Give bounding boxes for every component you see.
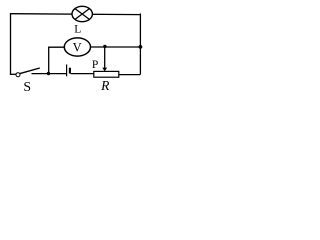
- svg-text:V: V: [73, 40, 82, 54]
- wire battery to rheostat: [71, 73, 95, 75]
- node junction dot (slider tap on voltmeter wire): [103, 45, 106, 48]
- wire left rail: [10, 13, 12, 75]
- node junction dot (voltmeter branch to bottom wire): [47, 72, 50, 75]
- voltmeter V: [64, 38, 90, 56]
- label R: [100, 78, 110, 93]
- svg-text:R: R: [100, 78, 110, 93]
- wire rheostat to bottom right corner: [119, 74, 141, 76]
- svg-text:P: P: [92, 59, 98, 71]
- wire bottom left (corner to switch pivot): [10, 73, 16, 75]
- svg-text:S: S: [23, 79, 31, 94]
- wire voltmeter right lead to right rail: [91, 46, 141, 48]
- wire switch contact to battery: [32, 73, 67, 75]
- label L: [74, 24, 81, 36]
- rheostat R body: [94, 71, 119, 77]
- svg-text:L: L: [74, 24, 81, 36]
- lamp L: [72, 6, 92, 21]
- wire right rail: [139, 13, 141, 74]
- wire voltmeter branch vertical: [48, 47, 50, 73]
- wire voltmeter left lead: [48, 46, 64, 48]
- wire slider tap vertical with arrow: [102, 47, 107, 71]
- label S: [23, 79, 31, 94]
- label P: [92, 59, 98, 71]
- wire top (node between switch and lamp / lamp and right rail): [11, 13, 141, 16]
- switch S: [16, 68, 40, 77]
- node junction dot (voltmeter wire to right rail): [139, 45, 143, 49]
- battery cell: [67, 65, 70, 77]
